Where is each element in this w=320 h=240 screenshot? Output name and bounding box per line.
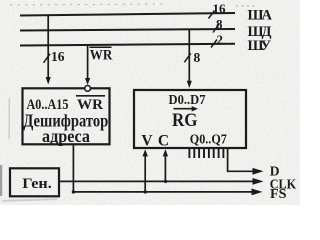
width slash on ША	[209, 11, 215, 19]
decoder block U1	[23, 88, 110, 144]
overline of WR label	[90, 46, 112, 48]
arrowhead into RG C input	[163, 149, 168, 156]
junction decoder wire to FS line	[72, 190, 75, 193]
arrowhead into decoder A input	[46, 77, 51, 85]
wire WR to decoder	[87, 45, 89, 79]
bus ШД	[20, 29, 235, 31]
Q0 output tick	[188, 148, 190, 158]
arrowhead output FS	[252, 189, 263, 196]
Q5 output tick	[213, 148, 215, 158]
wire decoder to FS	[73, 144, 253, 192]
arrowhead into RG D input	[187, 81, 192, 88]
arrowhead output D	[253, 168, 264, 175]
Q6 output tick	[218, 148, 220, 158]
wire Q7 to output D	[228, 148, 254, 171]
arrowhead into decoder WR input	[85, 78, 90, 85]
scan artifact smear under generator	[2, 199, 57, 201]
inverter bubble on decoder WR input	[85, 86, 91, 92]
wire address bus to decoder	[47, 16, 49, 79]
Q7 output tick	[222, 148, 224, 158]
scan artifact left edge	[0, 165, 2, 196]
scan artifact faint vertical crease	[9, 98, 10, 139]
Q1 output tick	[193, 148, 195, 158]
shift arrow over RG	[174, 108, 194, 110]
wire generator to CLK	[59, 180, 254, 182]
Q2 output tick	[198, 148, 200, 158]
junction V tap on FS line	[144, 190, 147, 193]
wire tap to RG V input	[144, 155, 146, 192]
junction C tap on CLK line	[164, 180, 167, 183]
generator block	[10, 168, 59, 196]
width slash on ШД	[213, 24, 219, 33]
bus ШУ	[20, 44, 235, 46]
arrowhead into RG V input	[143, 149, 148, 156]
bus ША	[20, 13, 235, 16]
Q4 output tick	[208, 148, 210, 158]
wire tap to RG C input	[164, 155, 166, 182]
width slash on address wire	[44, 54, 51, 63]
width slash on data wire	[184, 54, 191, 63]
arrowhead output CLK	[253, 178, 264, 185]
width slash on ШУ	[211, 40, 217, 48]
Q3 output tick	[203, 148, 205, 158]
scan artifact faint dotted rule top	[10, 4, 163, 5]
wire data bus to RG	[188, 30, 190, 83]
register block RG	[134, 90, 246, 148]
